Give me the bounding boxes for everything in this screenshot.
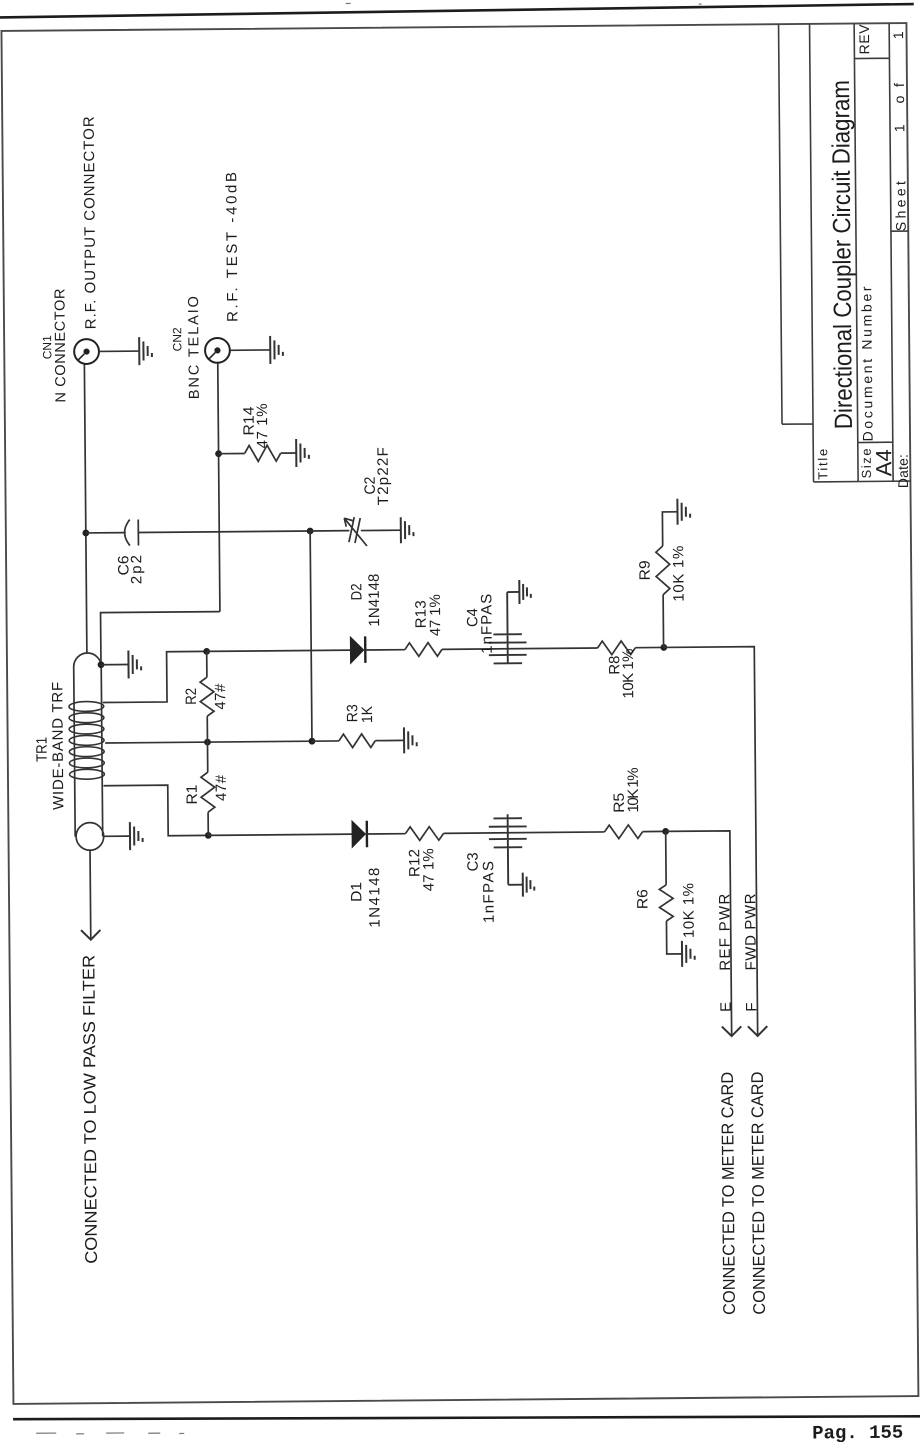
svg-text:1N4148: 1N4148 <box>366 868 384 928</box>
svg-text:10K 1%: 10K 1% <box>625 767 642 812</box>
wire R12 through C3 to R5 <box>444 832 605 833</box>
svg-text:R6: R6 <box>634 889 651 909</box>
node junction top rail to C6 <box>82 530 89 537</box>
diode D2 1N4148 <box>350 637 363 663</box>
diode D1 1N4148 <box>352 821 365 847</box>
svg-text:Pag. 155: Pag. 155 <box>812 1422 903 1442</box>
svg-text:FWD PWR: FWD PWR <box>742 893 760 970</box>
arrow F FWD PWR <box>748 1026 767 1036</box>
resistor R9 <box>662 595 664 648</box>
transformer TR1 winding coil <box>69 701 104 779</box>
wire CN2 jog to transformer <box>101 612 221 665</box>
connector CN2 symbol <box>205 338 230 363</box>
wire D1 to R12 <box>367 833 405 835</box>
transformer TR1 tube body <box>74 653 103 837</box>
resistor R2 <box>206 716 208 742</box>
node junction B above R3 <box>309 738 316 745</box>
bottom page rule <box>13 1411 920 1424</box>
ground at R3 <box>404 727 417 753</box>
svg-text:REF PWR: REF PWR <box>716 893 734 970</box>
arrow to low pass filter <box>81 930 100 940</box>
node junction R2 top <box>203 648 210 655</box>
svg-text:CONNECTED TO METER CARD: CONNECTED TO METER CARD <box>718 1072 739 1315</box>
title block outline <box>779 23 911 482</box>
svg-text:CONNECTED TO LOW PASS FILTER: CONNECTED TO LOW PASS FILTER <box>79 955 101 1264</box>
node junction R14 tap <box>215 450 222 457</box>
svg-text:10K 1%: 10K 1% <box>680 883 697 938</box>
node junction R1 end <box>205 832 212 839</box>
wire TR1 circle to low pass filter arrow <box>89 850 92 940</box>
ground at CN2 <box>270 336 283 364</box>
svg-text:10K 1%: 10K 1% <box>620 648 637 698</box>
svg-text:TR1: TR1 <box>34 737 51 762</box>
svg-text:47 1%: 47 1% <box>254 403 271 448</box>
wire D2 chain upper <box>207 650 351 651</box>
feedthrough capacitor C3 <box>489 814 527 885</box>
svg-text:Directional Coupler Circuit Di: Directional Coupler Circuit Diagram <box>827 80 858 429</box>
svg-text:1N4148: 1N4148 <box>366 574 383 627</box>
ground at R9 <box>677 499 690 525</box>
wire D1 chain upper <box>208 834 352 835</box>
node junction center tap <box>204 739 211 746</box>
resistor R14 <box>219 452 245 454</box>
wire tube junction to ground <box>101 663 128 665</box>
node junction R8 R9 <box>660 644 667 651</box>
ground at CN1 <box>139 337 152 365</box>
resistor R3 <box>312 740 339 742</box>
svg-text:1K: 1K <box>359 706 376 723</box>
ground at C4 <box>519 580 531 604</box>
svg-text:Sheet: Sheet <box>892 181 908 231</box>
svg-text:N CONNECTOR: N CONNECTOR <box>52 289 69 403</box>
svg-text:WIDE-BAND TRF: WIDE-BAND TRF <box>49 682 67 810</box>
arrow E REF PWR <box>722 1026 741 1036</box>
ground at TR1 circle <box>130 822 143 850</box>
wire winding tap to D1 side <box>104 785 209 837</box>
wire TR1 to CN1 (top rail) <box>84 364 87 653</box>
node junction R5 R6 <box>662 828 669 835</box>
svg-text:R1: R1 <box>184 784 201 804</box>
svg-text:Title: Title <box>815 449 830 480</box>
resistor R6 <box>665 831 667 884</box>
svg-text:C3: C3 <box>465 852 482 871</box>
wire D2 to R13 <box>365 649 405 651</box>
wire TR1 circle to ground <box>104 835 130 837</box>
resistor R1 <box>207 812 209 835</box>
node junction at TR1 tube end <box>98 661 105 668</box>
wire R5 to junction <box>643 830 666 832</box>
ground at C3 <box>523 873 535 897</box>
wire to F FWD PWR <box>664 647 758 1037</box>
resistor R13 <box>405 643 442 657</box>
node junction A above C2 <box>307 528 314 535</box>
trimmer capacitor C2 <box>310 517 401 547</box>
svg-text:47#: 47# <box>213 774 230 801</box>
svg-text:Date:: Date: <box>895 454 911 488</box>
wire CN1 to ground <box>99 350 139 352</box>
wire R8 to junction <box>635 646 663 648</box>
svg-text:R9: R9 <box>637 560 654 580</box>
svg-text:1nFPAS: 1nFPAS <box>480 861 498 923</box>
top page rule <box>0 4 914 18</box>
svg-text:R2: R2 <box>183 688 200 705</box>
svg-text:2p2: 2p2 <box>128 555 145 584</box>
wire node A to node B <box>310 531 312 741</box>
svg-text:47 1%: 47 1% <box>420 848 437 891</box>
ground at R14 <box>296 439 309 467</box>
feedthrough capacitor C4 <box>488 592 526 664</box>
svg-text:F: F <box>743 1002 760 1011</box>
ground at R6 <box>682 941 695 967</box>
svg-text:T2p22F: T2p22F <box>375 447 393 505</box>
wire CN2 to ground <box>230 349 270 351</box>
svg-text:1: 1 <box>890 31 906 39</box>
resistor R8 <box>598 641 636 655</box>
capacitor C6 <box>86 518 311 546</box>
svg-text:E: E <box>718 1002 735 1012</box>
wire R13 through C4 to R8 <box>442 648 598 649</box>
svg-text:A4: A4 <box>871 449 896 476</box>
resistor R5 <box>604 825 642 839</box>
ground at C2 <box>401 517 414 543</box>
resistor R12 <box>405 827 443 841</box>
svg-text:47 1%: 47 1% <box>427 594 444 636</box>
wire CN2 line <box>218 363 220 612</box>
svg-text:CONNECTED TO METER CARD: CONNECTED TO METER CARD <box>748 1072 769 1315</box>
wire winding center tap column <box>105 741 312 743</box>
wire winding tap to D2 side <box>102 651 207 702</box>
svg-text:D2: D2 <box>348 583 365 600</box>
transformer TR1 end circle <box>76 823 104 851</box>
svg-text:REV: REV <box>856 24 872 55</box>
svg-text:1nFPAS: 1nFPAS <box>478 594 496 654</box>
wire to E REF PWR <box>666 831 732 1037</box>
svg-text:10K 1%: 10K 1% <box>670 546 687 602</box>
svg-text:R.F. OUTPUT CONNECTOR: R.F. OUTPUT CONNECTOR <box>81 116 100 329</box>
svg-text:D1: D1 <box>348 882 365 902</box>
scan specks <box>24 0 715 1442</box>
svg-text:47#: 47# <box>212 683 229 710</box>
svg-text:CN2: CN2 <box>170 327 184 351</box>
ground at TR1 tube end <box>128 650 141 678</box>
connector CN1 symbol <box>74 339 99 364</box>
